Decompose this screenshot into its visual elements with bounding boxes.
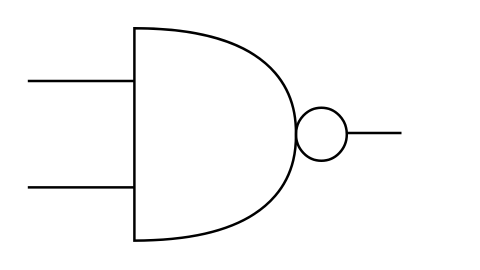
nand gate U1 body: [134, 28, 296, 240]
wire output: [346, 132, 401, 135]
wire input A (top): [28, 80, 135, 83]
wire input B (bottom): [28, 186, 135, 189]
inversion bubble: [296, 108, 347, 161]
